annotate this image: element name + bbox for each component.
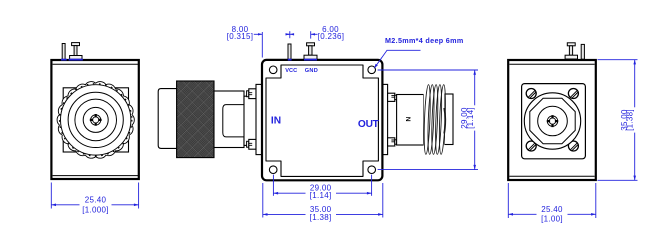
view4 flange screw bottom-left (526, 141, 536, 151)
dimension 29.00 [1.14] bottom (273, 175, 371, 196)
IN connector neck (244, 96, 257, 145)
OUT connector end cap (444, 94, 453, 145)
svg-text:[1.38]: [1.38] (310, 213, 332, 222)
OUT connector top screw (388, 93, 397, 101)
IN connector bottom screw (247, 139, 256, 149)
IN connector front barrel (158, 89, 177, 149)
svg-text:[1.38]: [1.38] (626, 109, 635, 131)
center pin base blue marks (288, 59, 317, 61)
center lid outline with corner notches (266, 65, 378, 176)
view4 flange screw top-right (568, 89, 578, 99)
view1 coupling nut scalloped circle (57, 82, 134, 159)
view1 enclosure box (51, 60, 138, 179)
IN connector body recess (223, 105, 244, 137)
svg-text:[1.14]: [1.14] (310, 191, 332, 200)
view1 T terminal pin (70, 43, 82, 60)
IN connector knurled coupling nut (177, 81, 214, 158)
OUT connector bottom screw (388, 138, 397, 146)
svg-text:[0.236]: [0.236] (318, 32, 345, 41)
view4 T terminal pin (565, 43, 577, 59)
svg-text:M2.5mm*4 deep 6mm: M2.5mm*4 deep 6mm (385, 36, 464, 45)
center mounting holes (269, 66, 375, 174)
view1 connector flange square (63, 88, 128, 152)
dimension 35.00 [1.38] bottom (263, 183, 383, 218)
view4 enclosure box (508, 60, 596, 180)
view4 center contact (547, 115, 558, 127)
view1 center contact (90, 114, 102, 126)
note M2.5mm*4 deep 6mm with leader (374, 36, 463, 68)
view1 nut face circles (68, 92, 123, 147)
view1 thin feedthrough pin (62, 44, 65, 60)
svg-text:[0.315]: [0.315] (227, 32, 254, 41)
view4 connector flange plate (522, 84, 586, 159)
view1 pin base blue marks (61, 59, 83, 61)
svg-text:25.40: 25.40 (541, 205, 563, 214)
IN connector top screw (247, 89, 256, 99)
view4 flange screw bottom-right (568, 141, 578, 151)
svg-text:N: N (404, 117, 411, 122)
svg-text:GND: GND (305, 68, 318, 74)
dimension 25.40 [1.000] view1 (51, 183, 138, 209)
center GND pin (304, 43, 317, 60)
svg-text:[1.00]: [1.00] (541, 214, 563, 223)
OUT connector mounting plate (383, 84, 388, 154)
dimension 6.00 [0.236] (286, 31, 318, 38)
svg-text:VCC: VCC (285, 68, 297, 74)
svg-text:OUT: OUT (358, 119, 380, 130)
OUT connector threads (423, 85, 446, 155)
svg-text:[1.14]: [1.14] (466, 107, 475, 129)
dimension 25.40 [1.00] view4 bottom (508, 183, 596, 218)
view4 flange screw top-left (526, 89, 536, 99)
dimension 35.00 [1.38] right vertical (598, 60, 638, 181)
center VCC pin (288, 44, 291, 60)
dimension 29.00 [1.14] right vertical (378, 70, 478, 170)
svg-text:25.40: 25.40 (85, 195, 107, 204)
OUT connector body (397, 95, 424, 146)
svg-text:IN: IN (271, 116, 281, 127)
view4 hex/octagon nut (530, 98, 575, 143)
view4 connector outer circle (524, 93, 580, 149)
IN connector mounting plate (256, 84, 262, 154)
view4 inner circle (538, 106, 568, 136)
view4 thin feedthrough pin (581, 44, 584, 59)
svg-text:[1.000]: [1.000] (82, 205, 109, 214)
center enclosure box (262, 60, 382, 180)
IN connector body (214, 91, 244, 148)
dimension 8.00 [0.315] (254, 31, 294, 57)
